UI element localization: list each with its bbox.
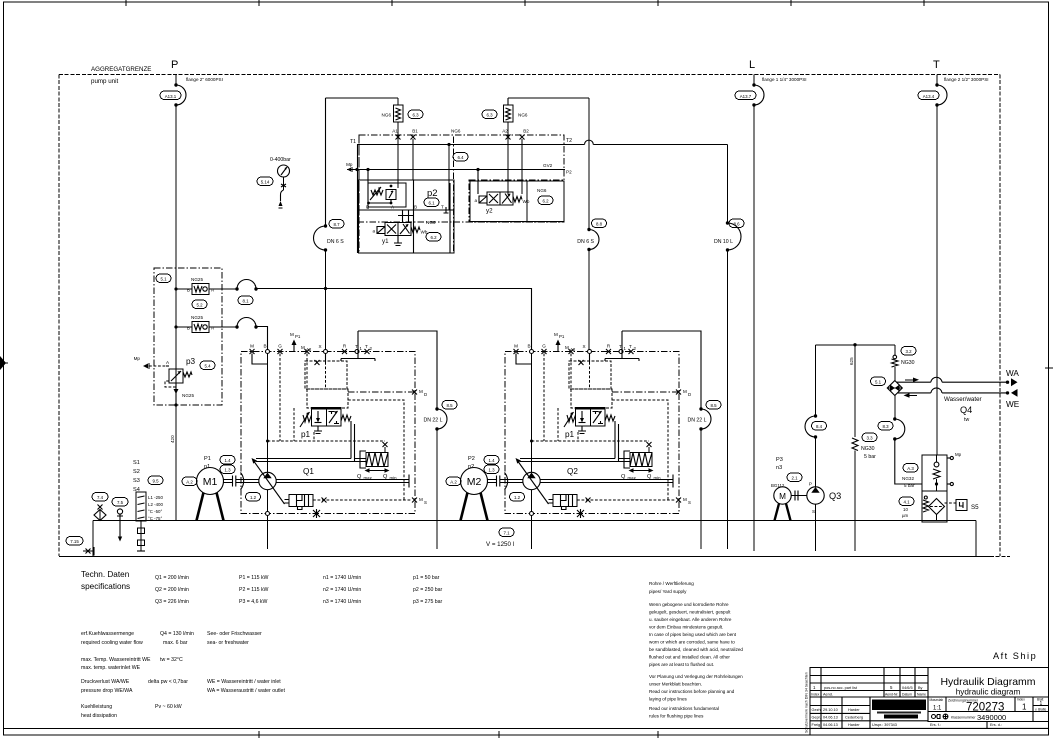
pump Q3 bbox=[807, 487, 824, 504]
frame tick bottom 2 bbox=[498, 731, 500, 738]
svg-text:Kuehlleistung: Kuehlleistung bbox=[81, 704, 112, 710]
svg-text:B: B bbox=[187, 326, 190, 331]
label oval 8.4 bbox=[812, 422, 827, 431]
svg-text:a: a bbox=[474, 198, 477, 203]
filter housing lower bbox=[922, 491, 947, 522]
hose A13.4 bbox=[935, 83, 938, 86]
svg-text:Mp: Mp bbox=[955, 452, 962, 457]
frame tick top 6 bbox=[790, 0, 792, 6]
svg-text:hydraulic diagram: hydraulic diagram bbox=[956, 688, 1021, 697]
drain 7.15 bbox=[66, 537, 83, 546]
wire DN10L lower bbox=[727, 250, 729, 521]
svg-text:5.1: 5.1 bbox=[875, 380, 882, 385]
svg-text:Techn. Daten: Techn. Daten bbox=[81, 570, 130, 579]
svg-text:p3 = 275 bar: p3 = 275 bar bbox=[413, 599, 443, 605]
svg-text:6.1: 6.1 bbox=[428, 201, 435, 206]
svg-text:rules for flushing pipe lines: rules for flushing pipe lines bbox=[649, 714, 704, 719]
port mark A1 bbox=[396, 135, 401, 140]
svg-text:Aft Ship: Aft Ship bbox=[993, 651, 1037, 661]
breather 7.4 bbox=[92, 493, 108, 502]
svg-text:In case of pipes being used wh: In case of pipes being used which are be… bbox=[649, 632, 737, 637]
svg-text:vor dem Einbau mindestens gesp: vor dem Einbau mindestens gespult. bbox=[649, 625, 723, 630]
hose 8.3 bbox=[893, 417, 896, 420]
wire filter outlet bbox=[936, 515, 938, 521]
svg-text:720273: 720273 bbox=[966, 702, 1004, 714]
svg-text:flange 2 1/2" 3000PSI: flange 2 1/2" 3000PSI bbox=[944, 77, 989, 82]
svg-text:NG25: NG25 bbox=[191, 277, 203, 282]
wire p2 left column bbox=[357, 145, 359, 254]
wire cooler to filter bbox=[895, 439, 922, 484]
svg-text:Urspr.: 397343: Urspr.: 397343 bbox=[872, 723, 897, 727]
svg-text:Index: Index bbox=[1017, 698, 1025, 702]
label oval 8.7 bbox=[329, 220, 344, 229]
manifold dash box p2 bbox=[359, 135, 454, 253]
label oval A13.4 bbox=[918, 91, 939, 100]
svg-text:P3: P3 bbox=[776, 457, 783, 463]
wire to X port Q2 bbox=[588, 250, 590, 352]
titleblock outline bbox=[810, 668, 1049, 736]
aggregate boundary right dashed bbox=[999, 75, 1001, 557]
svg-text:5 bar: 5 bar bbox=[864, 454, 876, 460]
svg-text:625: 625 bbox=[849, 357, 854, 365]
label oval 5.2 bbox=[192, 300, 207, 309]
svg-text:Name: Name bbox=[917, 693, 926, 697]
svg-text:Wb: Wb bbox=[523, 199, 530, 204]
svg-text:Freig.: Freig. bbox=[812, 723, 822, 727]
svg-text:7.1: 7.1 bbox=[503, 531, 510, 536]
y2 block solid box bbox=[470, 181, 564, 222]
RISERS bbox=[160, 59, 989, 551]
svg-text:2.1: 2.1 bbox=[791, 476, 798, 481]
svg-text:Read our instruktions fundamen: Read our instruktions fundamental bbox=[649, 706, 719, 711]
svg-text:04.06.13: 04.06.13 bbox=[823, 716, 838, 720]
svg-text:NG6: NG6 bbox=[426, 220, 436, 225]
svg-text:v. Blatte: v. Blatte bbox=[1035, 708, 1047, 712]
wire cooler riser bbox=[894, 345, 896, 356]
svg-text:5.4: 5.4 bbox=[204, 364, 211, 369]
label oval 7.1 bbox=[499, 528, 514, 537]
svg-text:6.2: 6.2 bbox=[430, 235, 437, 240]
svg-text:Harder: Harder bbox=[848, 723, 860, 727]
svg-text:5.1: 5.1 bbox=[160, 277, 167, 282]
svg-text:max. 6 bar: max. 6 bar bbox=[163, 640, 188, 646]
frame tick top 3 bbox=[391, 0, 393, 6]
aggregate boundary top dashed bbox=[59, 74, 1000, 76]
svg-text:P: P bbox=[171, 59, 178, 71]
svg-text:8.3: 8.3 bbox=[882, 424, 889, 429]
svg-text:T2: T2 bbox=[566, 138, 572, 144]
filter element 4.1 bbox=[929, 499, 945, 515]
svg-text:A13.4: A13.4 bbox=[923, 94, 935, 99]
svg-text:NG6: NG6 bbox=[518, 113, 528, 118]
svg-text:5.2: 5.2 bbox=[196, 303, 203, 308]
frame tick left bbox=[0, 362, 8, 364]
wire collector to Q1 bbox=[256, 327, 268, 352]
port triangle WE bbox=[1011, 389, 1018, 397]
frame tick top 7 bbox=[923, 0, 925, 6]
svg-text:required cooling water flow: required cooling water flow bbox=[81, 640, 143, 646]
svg-text:p3: p3 bbox=[186, 357, 196, 366]
wire cooler outlet bbox=[894, 396, 896, 420]
flow arrow right bbox=[905, 379, 914, 381]
svg-text:flushed out and installed clea: flushed out and installed clean. All oth… bbox=[649, 655, 730, 660]
svg-text:Ers. f.:: Ers. f.: bbox=[930, 723, 941, 727]
wire pilot feed lower bbox=[325, 250, 327, 352]
svg-text:7.15: 7.15 bbox=[70, 539, 79, 544]
label oval 4.1 bbox=[899, 497, 914, 506]
svg-text:8.1: 8.1 bbox=[242, 299, 249, 304]
svg-text:V = 1250 l: V = 1250 l bbox=[486, 541, 514, 548]
check valve filter bbox=[936, 455, 938, 462]
manifold dash box upper bbox=[359, 135, 564, 222]
svg-text:04/6/5: 04/6/5 bbox=[902, 686, 913, 690]
svg-text:3490000: 3490000 bbox=[977, 713, 1006, 722]
svg-text:Gezh.: Gezh. bbox=[812, 708, 822, 712]
svg-text:Cederberg: Cederberg bbox=[845, 716, 863, 720]
svg-text:9.5: 9.5 bbox=[152, 479, 159, 484]
svg-text:BG112: BG112 bbox=[771, 483, 785, 488]
label oval A13.1 bbox=[160, 91, 181, 100]
check valve NG25 no.2 bbox=[176, 326, 192, 328]
p3 manifold dash box bbox=[154, 268, 222, 405]
pilot relief spring bbox=[371, 190, 383, 195]
tank top line bbox=[93, 520, 976, 522]
svg-text:flange 1 1/4" 3000PSI: flange 1 1/4" 3000PSI bbox=[762, 77, 807, 82]
svg-text:erf.Kuehlwassermenge: erf.Kuehlwassermenge bbox=[81, 631, 134, 637]
svg-text:6.3: 6.3 bbox=[486, 113, 493, 118]
node dot T tap bbox=[447, 143, 450, 146]
level gauge probe bbox=[140, 521, 142, 551]
svg-text:Mp: Mp bbox=[134, 356, 141, 361]
svg-text:Hydraulik Diagramm: Hydraulik Diagramm bbox=[940, 676, 1035, 688]
svg-text:P2 = 115 kW: P2 = 115 kW bbox=[239, 587, 269, 593]
svg-text:L1 -250: L1 -250 bbox=[148, 495, 163, 500]
wire T2 to DN10L bbox=[727, 145, 729, 224]
svg-text:M1: M1 bbox=[203, 476, 218, 488]
wire B1 bbox=[412, 139, 414, 180]
svg-text:8.7: 8.7 bbox=[333, 222, 340, 227]
svg-text:B2: B2 bbox=[523, 129, 529, 134]
label oval 6.4 bbox=[453, 153, 468, 162]
wire p2 divider bbox=[359, 209, 455, 211]
svg-text:NG6: NG6 bbox=[382, 113, 392, 118]
svg-text:A13.1: A13.1 bbox=[165, 94, 177, 99]
frame tick top 5 bbox=[657, 0, 659, 6]
Q2BLOCK bbox=[446, 331, 721, 549]
svg-text:S2: S2 bbox=[133, 469, 140, 475]
svg-text:7.4: 7.4 bbox=[97, 495, 104, 500]
frame tick bottom 3 bbox=[657, 731, 659, 738]
svg-text:5 bar: 5 bar bbox=[904, 483, 915, 488]
wire collector to Q2 bbox=[256, 289, 532, 352]
svg-text:unser Merkblatt beachten.: unser Merkblatt beachten. bbox=[649, 682, 702, 687]
port side filter bbox=[947, 483, 950, 485]
port Mp filter bbox=[947, 457, 950, 459]
svg-text:pos-no acc. part list: pos-no acc. part list bbox=[824, 686, 858, 690]
svg-text:6.3: 6.3 bbox=[412, 113, 419, 118]
svg-text:S1: S1 bbox=[133, 460, 140, 466]
svg-text:y1: y1 bbox=[382, 238, 389, 245]
svg-text:Rohre / Werftlieferung: Rohre / Werftlieferung bbox=[649, 581, 694, 586]
svg-text:NG25: NG25 bbox=[191, 315, 203, 320]
valve y2 bbox=[487, 192, 513, 205]
svg-text:Vor Planung und Verlegung der: Vor Planung und Verlegung der Rohrleitun… bbox=[649, 674, 743, 679]
BOUNDARY bbox=[59, 66, 1000, 556]
node dot header bbox=[853, 343, 856, 346]
svg-text:heat dissipation: heat dissipation bbox=[81, 713, 117, 719]
pilot relief p2 housing bbox=[368, 183, 406, 207]
svg-text:worn or which are corroded, sa: worn or which are corroded, same have to bbox=[649, 640, 735, 645]
svg-text:Q3 = 226 l/min: Q3 = 226 l/min bbox=[155, 599, 189, 605]
label oval A.3 bbox=[903, 464, 918, 473]
svg-text:Q4 = 130 l/min: Q4 = 130 l/min bbox=[160, 631, 194, 637]
svg-text:6.2: 6.2 bbox=[542, 199, 549, 204]
filter bypass spring bbox=[924, 496, 927, 499]
wire Q3 suction bbox=[815, 504, 817, 551]
label oval 8.6 bbox=[729, 219, 744, 228]
svg-text:420: 420 bbox=[170, 435, 175, 443]
svg-text:max. temp. waterinlet WE: max. temp. waterinlet WE bbox=[81, 665, 141, 671]
label oval 8.1 bbox=[238, 296, 253, 305]
label oval 6.2 bbox=[426, 233, 441, 242]
svg-text:sea- or freshwater: sea- or freshwater bbox=[207, 640, 249, 646]
VALVEBLOCK bbox=[314, 98, 745, 521]
titleblock rows lower left bbox=[810, 706, 1049, 729]
svg-text:M2: M2 bbox=[467, 476, 482, 488]
svg-text:S3: S3 bbox=[133, 478, 140, 484]
svg-text:Harder: Harder bbox=[848, 708, 860, 712]
svg-text:Q2: Q2 bbox=[567, 467, 578, 476]
svg-text:6.4: 6.4 bbox=[457, 155, 464, 160]
svg-text:Q2 = 200 l/min: Q2 = 200 l/min bbox=[155, 587, 189, 593]
svg-text:µm: µm bbox=[902, 513, 909, 518]
svg-text:Aend.: Aend. bbox=[823, 693, 833, 697]
svg-text:max. Temp. Wassereintritt WE: max. Temp. Wassereintritt WE bbox=[81, 657, 151, 663]
wire to Q3 bbox=[815, 437, 817, 487]
titleblock rows lower right bbox=[928, 712, 1049, 722]
pump unit 2 assembly (copy) bbox=[446, 331, 721, 549]
drain y1 bbox=[394, 236, 402, 246]
projection symbol bbox=[932, 715, 936, 719]
P3BLOCK bbox=[134, 268, 532, 443]
svg-text:04.06.13: 04.06.13 bbox=[823, 723, 838, 727]
label oval 3.2 bbox=[901, 347, 916, 356]
coupling Q3 bbox=[791, 491, 807, 501]
svg-text:p1 = 50 bar: p1 = 50 bar bbox=[413, 575, 440, 581]
svg-text:1: 1 bbox=[1040, 701, 1043, 707]
svg-text:Index: Index bbox=[811, 693, 820, 697]
wire GV2 line bbox=[347, 169, 565, 171]
water line WE bbox=[898, 388, 1008, 393]
level gauge body bbox=[136, 492, 146, 521]
wire T column bbox=[448, 145, 450, 211]
svg-text:P: P bbox=[809, 482, 812, 487]
frame tick top 4 bbox=[524, 0, 526, 6]
svg-text:A1: A1 bbox=[392, 129, 398, 134]
svg-text:Schutzvermerk nach DIN 34 beac: Schutzvermerk nach DIN 34 beachten bbox=[805, 672, 809, 733]
label oval 8.3 bbox=[878, 422, 893, 431]
hose 8.1a bbox=[235, 287, 238, 290]
titleblock cols upper bbox=[821, 668, 928, 723]
svg-text:NG25: NG25 bbox=[182, 393, 194, 398]
relief valve p3 bbox=[166, 365, 169, 367]
svg-text:Q1: Q1 bbox=[303, 467, 314, 476]
port mark B1 bbox=[411, 135, 416, 140]
wire B2 bbox=[521, 139, 523, 194]
svg-text:Wasser/water: Wasser/water bbox=[944, 396, 982, 403]
svg-text:p2 = 250 bar: p2 = 250 bar bbox=[413, 587, 443, 593]
label oval 9.5 bbox=[148, 476, 163, 485]
svg-text:S: S bbox=[812, 509, 815, 514]
svg-text:laying of pipe lines: laying of pipe lines bbox=[649, 697, 687, 702]
svg-text:A.3: A.3 bbox=[907, 466, 914, 471]
COOLING bbox=[437, 343, 1020, 551]
svg-text:8.8: 8.8 bbox=[596, 222, 603, 227]
svg-text:Q1 = 200 l/min: Q1 = 200 l/min bbox=[155, 575, 189, 581]
svg-text:8.4: 8.4 bbox=[816, 424, 823, 429]
svg-text:Pv ~ 60 kW: Pv ~ 60 kW bbox=[155, 704, 182, 710]
p2 block solid box bbox=[359, 180, 455, 253]
svg-text:Maszstab: Maszstab bbox=[930, 698, 944, 702]
flow arrow left bbox=[908, 394, 917, 396]
svg-text:pipes are at least to flushed: pipes are at least to flushed out. bbox=[649, 662, 714, 667]
label oval 6.2 no.2 bbox=[538, 196, 553, 205]
switch S5 bbox=[945, 502, 957, 504]
wire T riser lower bbox=[936, 105, 938, 455]
svg-text:P1 = 115 kW: P1 = 115 kW bbox=[239, 575, 269, 581]
svg-text:1: 1 bbox=[1022, 703, 1027, 712]
frame inner bottom line bbox=[4, 728, 1049, 730]
wire P riser lower bbox=[175, 105, 177, 521]
svg-text:29.10.10: 29.10.10 bbox=[823, 708, 838, 712]
titleblock rows upper bbox=[810, 676, 1049, 698]
hose A13.1 bbox=[174, 83, 177, 86]
hose 8.1b bbox=[235, 325, 238, 328]
svg-text:n3 = 1740 U/min: n3 = 1740 U/min bbox=[323, 599, 361, 605]
wire T line bbox=[357, 140, 728, 144]
svg-text:WA = Wasseraustritt / water ou: WA = Wasseraustritt / water outlet bbox=[207, 688, 285, 694]
tank bottom dashed right bbox=[990, 556, 1010, 558]
svg-text:Druckverlust WA/WE: Druckverlust WA/WE bbox=[81, 679, 130, 685]
svg-text:DN 10 L: DN 10 L bbox=[714, 239, 733, 245]
svg-text:P2: P2 bbox=[566, 170, 572, 175]
label oval 5.4 bbox=[200, 361, 215, 370]
svg-text:a: a bbox=[372, 229, 375, 234]
svg-text:Mp: Mp bbox=[346, 162, 353, 167]
hose 8.8 DN 6 S bbox=[587, 228, 590, 231]
label oval A13.7 bbox=[735, 91, 756, 100]
hose A13.7 bbox=[752, 83, 755, 86]
svg-text:be sandblasted, cleaned with a: be sandblasted, cleaned with acid, neutr… bbox=[649, 647, 743, 652]
svg-text:L2 -400: L2 -400 bbox=[148, 502, 163, 507]
wire L riser upper bbox=[753, 75, 755, 86]
relief valve 3.3 bbox=[852, 438, 858, 451]
svg-text:Ers. d.:: Ers. d.: bbox=[990, 723, 1002, 727]
node P junction dots bbox=[174, 287, 177, 290]
filter housing upper bbox=[922, 455, 947, 491]
wire y1 H feed bbox=[398, 210, 413, 223]
svg-text:M: M bbox=[779, 492, 786, 501]
y2 block inner wall bbox=[526, 181, 528, 222]
svg-text:y2: y2 bbox=[486, 208, 493, 215]
TANK bbox=[59, 460, 1010, 557]
wire pilot feed left bbox=[326, 98, 399, 226]
frame tick right bbox=[1045, 367, 1053, 369]
svg-text:Read our instructions before p: Read our instructions before planning an… bbox=[649, 689, 735, 694]
company box redacted bbox=[872, 700, 926, 711]
svg-text:pressure drop WE/WA: pressure drop WE/WA bbox=[81, 688, 133, 694]
manifold dash box y2 bbox=[469, 180, 564, 222]
wire bypass riser bbox=[854, 345, 856, 437]
svg-text:NG30: NG30 bbox=[861, 446, 875, 452]
pilot relief dots bbox=[390, 185, 393, 188]
svg-text:flange 2" 6000PSI: flange 2" 6000PSI bbox=[186, 77, 223, 82]
label oval 8.8 bbox=[592, 219, 607, 228]
svg-text:T: T bbox=[933, 59, 940, 71]
svg-text:P1: P1 bbox=[204, 456, 211, 462]
svg-text:T1: T1 bbox=[350, 139, 356, 145]
svg-text:L: L bbox=[749, 59, 755, 71]
svg-text:WE: WE bbox=[1006, 400, 1020, 409]
check valve NG25 no.1 bbox=[176, 288, 192, 290]
label oval 3.3 bbox=[862, 433, 877, 442]
wire cooling header bbox=[816, 344, 895, 346]
svg-text:n1: n1 bbox=[204, 464, 210, 470]
svg-text:3.3: 3.3 bbox=[866, 436, 873, 441]
svg-text:S5: S5 bbox=[971, 504, 979, 511]
water line WA bbox=[897, 377, 1008, 382]
hose 8.6 DN 10 L bbox=[726, 221, 729, 224]
svg-text:WE = Wassereintritt / water in: WE = Wassereintritt / water inlet bbox=[207, 679, 281, 685]
tank pipe extensions bbox=[436, 521, 438, 550]
label oval 2.1 bbox=[787, 473, 802, 482]
svg-text:gekugelt, gesduert, neutralisi: gekugelt, gesduert, neutralisiert, gespu… bbox=[649, 610, 731, 615]
svg-text:7.5: 7.5 bbox=[117, 500, 124, 505]
label oval 6.1 bbox=[424, 198, 439, 207]
svg-text:Klassennummer: Klassennummer bbox=[951, 716, 976, 720]
wire jump vertical bbox=[588, 98, 590, 230]
wire GV2 taps bbox=[368, 170, 478, 210]
port triangle WA bbox=[1011, 378, 1018, 386]
filler 7.5 bbox=[112, 498, 128, 507]
svg-text:tw = 32°C: tw = 32°C bbox=[160, 657, 183, 663]
frame tick top 1 bbox=[125, 0, 127, 6]
hose 8.7 DN 6 S bbox=[324, 224, 327, 227]
valve y1 bbox=[385, 223, 411, 236]
svg-text:pump unit: pump unit bbox=[91, 78, 118, 85]
svg-text:DN 6 S: DN 6 S bbox=[577, 239, 594, 245]
svg-text:B: B bbox=[414, 205, 417, 210]
wire L riser lower bbox=[753, 105, 755, 551]
norm symbol bbox=[943, 714, 948, 719]
heat exchanger 5.1 bbox=[887, 381, 902, 396]
titleblock cols lower left bbox=[821, 697, 870, 728]
label oval 6.3 no.2 bbox=[482, 110, 497, 119]
tank left wall bbox=[92, 521, 94, 557]
relief valve 3.2 bbox=[893, 355, 897, 359]
svg-text:°C -50°: °C -50° bbox=[148, 509, 162, 514]
TITLEBLOCK bbox=[805, 668, 1049, 736]
frame tick bottom 1 bbox=[258, 731, 260, 738]
svg-text:n2 = 1740 U/min: n2 = 1740 U/min bbox=[323, 587, 361, 593]
svg-text:B1: B1 bbox=[412, 129, 418, 134]
svg-text:P2: P2 bbox=[468, 456, 475, 462]
label oval 5.14 bbox=[257, 177, 273, 186]
svg-text:Gepr.: Gepr. bbox=[812, 716, 821, 720]
svg-text:Q4: Q4 bbox=[960, 405, 972, 415]
svg-text:1:1: 1:1 bbox=[933, 706, 942, 712]
pilot relief p2 cartridge bbox=[386, 190, 396, 200]
